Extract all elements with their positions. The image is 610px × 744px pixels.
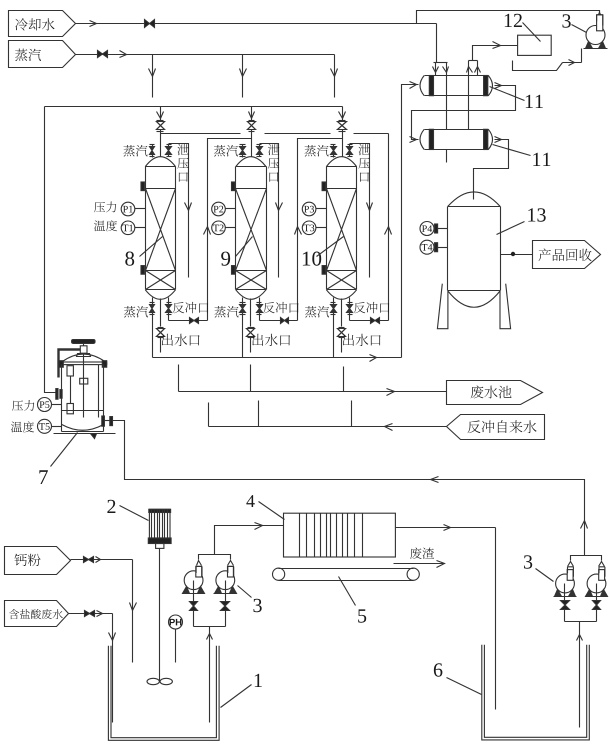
- adsorption column 9 vessel: [232, 157, 267, 300]
- vacuum pump 3 top-right: [584, 11, 608, 49]
- label 蒸汽 top of column 10: [304, 145, 328, 156]
- wire backwash bus 反冲自来水: [209, 401, 447, 431]
- wire cooling pass-through lines: [447, 76, 469, 163]
- wire steam header: [76, 54, 335, 56]
- wire steam drop to column 9: [240, 55, 247, 98]
- temperature gauge T5: [38, 419, 62, 433]
- pump 3d right: [586, 570, 608, 597]
- wire cooling-water header: [76, 23, 437, 25]
- label 蒸汽 bottom of column 10: [305, 306, 329, 317]
- wire vapor outlet to tank 12: [467, 42, 518, 76]
- label 出水口 column 8: [162, 334, 200, 346]
- arrow on cooling line: [90, 21, 97, 27]
- wire recycle riser right of column 10: [385, 134, 392, 321]
- product tank 13: [437, 192, 510, 329]
- number label 3 top-right: [562, 14, 586, 32]
- pressure gauge P2: [212, 202, 236, 216]
- flag label 废水池: [447, 381, 543, 405]
- settling tank 6: [482, 645, 590, 740]
- pressure gauge P1: [121, 202, 145, 216]
- wire outlet bus 出水口: [153, 355, 402, 362]
- label 出水口 column 9: [252, 334, 290, 346]
- backwash line 反冲口 column 10: [350, 318, 389, 324]
- label 反冲口 column 10: [354, 302, 390, 313]
- condenser 11 lower: [420, 129, 493, 149]
- relief line 泄压口 of column 10: [350, 144, 373, 278]
- pump 3c right: [554, 570, 577, 597]
- temperature gauge T4: [420, 240, 448, 254]
- valve on steam line: [98, 51, 108, 58]
- number label 3 right: [524, 555, 554, 581]
- valve on feed drop x=251.5: [248, 121, 256, 132]
- relief stub valve top-right of column 9: [257, 145, 263, 157]
- number label 2: [107, 500, 148, 521]
- backwash line 反冲口 column 9: [260, 318, 298, 324]
- wire left pumps suction: [194, 627, 226, 723]
- wire left pumps discharge manifold: [197, 523, 284, 566]
- backwash stub valve bottom-right column 8: [166, 298, 172, 321]
- number label 10: [303, 237, 344, 266]
- label 温度 vessel 7: [11, 421, 34, 432]
- valve on feed drop x=342.2: [338, 121, 347, 132]
- flag label 反冲自来水: [447, 415, 545, 440]
- number label 8: [125, 237, 162, 266]
- number label 1: [221, 674, 262, 708]
- valves under left pumps: [190, 594, 230, 627]
- backwash stub valve bottom-right column 9: [257, 298, 263, 321]
- condenser 11 upper: [420, 76, 493, 96]
- wire recycle jumper segment 2: [265, 133, 331, 135]
- label 温度 column 8: [94, 220, 117, 231]
- number label 3 left: [238, 586, 262, 613]
- steam stub valve bottom-left column 9: [240, 298, 246, 358]
- wire feed header: [45, 106, 343, 108]
- label 泄压口 column 10: [358, 144, 370, 182]
- steam stub valve top-left of column 8: [150, 145, 155, 158]
- wire product outlet: [501, 252, 533, 256]
- wire pump3 discharge top run: [417, 11, 600, 26]
- temperature gauge T1: [121, 221, 145, 235]
- adsorption column 10 vessel: [322, 157, 357, 300]
- wire series riser col8-to-col9: [204, 139, 252, 321]
- arrow up pump discharge: [597, 13, 603, 19]
- number label 7: [39, 433, 77, 485]
- wire right pumps discharge manifold: [568, 556, 605, 567]
- wire cooling water drop to condenser: [433, 24, 449, 76]
- temperature gauge T3: [302, 221, 326, 235]
- pressure gauge P3: [302, 202, 326, 216]
- label 泄压口 column 9: [268, 144, 280, 182]
- wire series riser col9-to-col10: [295, 139, 343, 321]
- number label 12: [505, 14, 541, 42]
- seal tray under tank 12: [513, 49, 582, 71]
- filter vessel 7 body: [54, 340, 116, 439]
- steam stub valve bottom-left column 10: [331, 298, 337, 358]
- pump 3b left: [214, 566, 237, 593]
- wire lime feed line: [71, 557, 137, 663]
- wire outlet bus riser to condenser: [402, 82, 419, 358]
- relief line 泄压口 of column 8: [169, 144, 192, 278]
- steam stub valve top-left of column 9: [240, 145, 246, 158]
- label 反冲口 column 9: [263, 302, 299, 313]
- conveyor 5: [273, 568, 420, 580]
- adsorption column 8 vessel: [141, 157, 176, 300]
- relief stub valve top-right of column 10: [347, 145, 353, 157]
- number label 13: [497, 208, 546, 234]
- relief line 泄压口 of column 9: [260, 144, 283, 278]
- label 废渣: [394, 547, 445, 567]
- valve on feed drop x=160.4: [157, 121, 165, 132]
- arrow on steam line: [120, 51, 127, 58]
- flag label cooling-water 冷却水: [9, 11, 76, 37]
- wire right pumps suction: [565, 622, 597, 728]
- wire feed drop into column at x=160.4: [157, 107, 164, 157]
- flag label 钙粉: [5, 547, 71, 575]
- flag label 含盐酸废水: [5, 601, 69, 627]
- right pump discharge stubs: [568, 567, 605, 577]
- outlet stub with valve column 10: [338, 299, 346, 353]
- label 压力 vessel 7: [12, 400, 34, 411]
- valves under right pumps: [561, 597, 601, 622]
- label 反冲口 column 8: [173, 302, 209, 313]
- outlet stub with valve column 8: [157, 299, 165, 353]
- number label 5: [339, 577, 367, 623]
- backwash stub valve bottom-right column 10: [347, 298, 353, 321]
- left pump discharge stubs: [196, 567, 234, 577]
- flag label steam 蒸汽: [9, 41, 76, 68]
- filter press 4: [284, 513, 396, 557]
- wire steam drop to column 10: [331, 55, 338, 98]
- backwash line 反冲口 column 8: [169, 318, 208, 324]
- wire feed drop into column at x=251.5: [249, 107, 255, 157]
- label 蒸汽 bottom of column 9: [214, 306, 238, 317]
- steam stub valve top-left of column 10: [331, 145, 337, 158]
- agitator shaft and propeller: [147, 549, 172, 685]
- outlet stub with valve column 9: [247, 299, 255, 353]
- wire feed drop to vessel 7: [45, 107, 57, 393]
- wire steam drop to column 8: [149, 55, 156, 98]
- label 蒸汽 top of column 8: [123, 145, 147, 156]
- vessel 7 left nozzle: [56, 389, 62, 400]
- number label 11 upper: [490, 87, 543, 109]
- valve on cooling line: [145, 20, 155, 28]
- flag label 产品回收: [533, 241, 601, 269]
- wire recycle jumper segment 3: [354, 133, 389, 135]
- pump 3a left: [183, 566, 205, 593]
- wire condensate to vessel 13: [474, 137, 509, 200]
- label 蒸汽 bottom of column 8: [124, 306, 148, 317]
- steam stub valve bottom-left column 8: [150, 298, 155, 358]
- pH sensor: [169, 615, 183, 663]
- label 压力 column 8: [94, 201, 116, 212]
- temperature gauge T2: [212, 221, 236, 235]
- number label 4: [246, 495, 284, 519]
- relief stub valve top-right of column 8: [166, 145, 172, 157]
- label 泄压口 column 8: [177, 144, 189, 182]
- wire acid feed line: [69, 611, 116, 723]
- number label 9: [221, 237, 252, 266]
- number label 11 lower: [493, 145, 551, 167]
- number label 6: [434, 663, 482, 694]
- agitator motor 2: [148, 509, 171, 548]
- wire feed drop into column at x=342.2: [339, 107, 346, 157]
- wire press outlet to tank 6: [396, 525, 496, 710]
- wire recycle jumper segment 1: [161, 133, 241, 135]
- wire condenser series jog: [410, 83, 516, 143]
- wire pump return line to vessel 7: [113, 421, 588, 556]
- reaction tank 1: [108, 646, 219, 741]
- vessel 7 right nozzle: [102, 416, 113, 426]
- buffer tank 12: [518, 35, 552, 55]
- pressure gauge P4: [420, 222, 448, 236]
- pressure gauge P5: [38, 398, 62, 412]
- wire drain bus to 废水池: [179, 365, 447, 396]
- label 蒸汽 top of column 9: [214, 145, 238, 156]
- label 出水口 column 10: [343, 334, 381, 346]
